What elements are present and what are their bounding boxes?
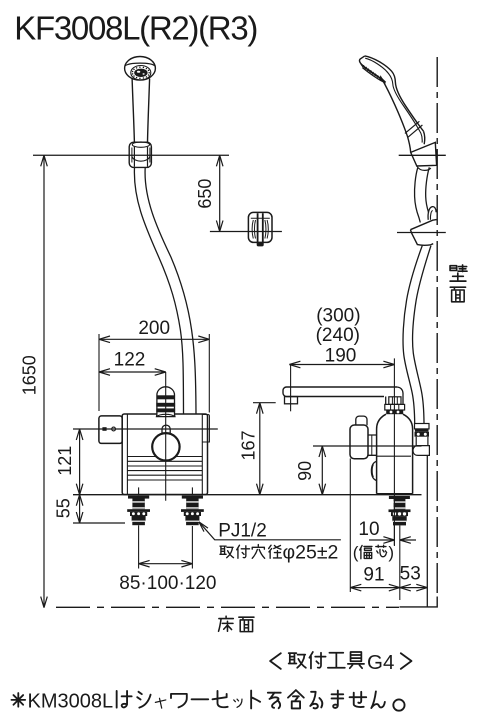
- hook height reference line (left view): [210, 231, 282, 233]
- switch tab (side view body, lower left): [371, 461, 376, 480]
- dimension 10 (offset) ticks and arrows: [393, 526, 395, 547]
- svg-text:650: 650: [195, 179, 215, 209]
- floor reference chain line: [56, 606, 399, 608]
- faucet body (front view): [122, 414, 209, 495]
- svg-text:91: 91: [363, 564, 384, 585]
- dimension 1650 vertical line with arrows: [43, 155, 45, 607]
- hose end fitting + elbow (side view): [415, 424, 430, 429]
- inlet leg right (front view): [182, 496, 203, 499]
- handle front extension line (91): [349, 459, 351, 593]
- svg-text:55: 55: [54, 498, 74, 518]
- svg-text:122: 122: [114, 350, 146, 371]
- dimension 122 line with arrows: [99, 371, 166, 373]
- dimension 90 line with arrows: [321, 446, 323, 495]
- leg nut bottom reference line (55): [73, 522, 125, 524]
- leader line PJ1/2: [199, 522, 341, 540]
- extension lines for 200: [98, 334, 100, 411]
- body inner line (side view): [377, 455, 411, 457]
- inlet leg (side view): [389, 496, 410, 499]
- svg-text:121: 121: [55, 446, 75, 476]
- svg-text:90: 90: [295, 461, 315, 481]
- svg-text:(: (: [353, 543, 359, 562]
- center line through crown and dial: [165, 372, 167, 501]
- check valve cap (left of body): [99, 416, 122, 444]
- svg-text:167: 167: [239, 430, 259, 460]
- body bottom / deck reference line: [73, 494, 422, 496]
- shower head (front view): [125, 57, 156, 81]
- svg-text:(240): (240): [316, 325, 360, 346]
- shower holder bracket (front view): [129, 142, 151, 167]
- dimension 650 vertical line with arrows: [219, 155, 221, 231]
- spout-body joint block: [386, 387, 403, 408]
- shower holder (side view, on wall): [411, 142, 437, 166]
- hose connector crown on body top: [157, 387, 175, 417]
- grip ridge lines on body lower band: [127, 457, 202, 481]
- dimension 167 tick + line: [253, 402, 276, 404]
- dimension 91/53 line with arrows: [350, 587, 427, 589]
- label 壁面 (wall surface) vertical: [450, 265, 467, 281]
- hook height reference line (side view): [397, 232, 446, 234]
- inlet leg left (front view): [128, 496, 149, 499]
- dimension 85-100-120 line with arrows: [139, 563, 193, 565]
- svg-text:85·100·120: 85·100·120: [119, 573, 216, 594]
- body center line (side view): [393, 358, 395, 545]
- svg-text:1650: 1650: [19, 355, 39, 395]
- dimension 200 line with arrows: [99, 338, 209, 340]
- temperature dial (front view): [152, 433, 179, 460]
- shower height reference line (top, left view): [33, 154, 229, 156]
- label 床面 (floor surface): [219, 616, 234, 631]
- shower hose upper (side view): [415, 168, 421, 223]
- svg-text:190: 190: [325, 345, 357, 366]
- leg center extension lines for 85-100-120: [138, 525, 140, 568]
- shower head face hatch strokes: [361, 64, 386, 83]
- svg-text:53: 53: [400, 563, 421, 584]
- svg-text:G4: G4: [367, 651, 394, 674]
- label 取付穴径 φ25±2: [220, 546, 234, 558]
- dimension 121 / 55 vertical line: [79, 429, 81, 523]
- svg-text:(300): (300): [316, 306, 360, 327]
- lower wall hook (side view): [428, 207, 436, 220]
- dimension 190 line with arrows: [289, 364, 394, 366]
- svg-text:200: 200: [138, 318, 170, 339]
- svg-text:KF3008L(R2)(R3): KF3008L(R2)(R3): [14, 10, 257, 47]
- spout arm (side view): [283, 387, 397, 397]
- shower hose lower (side view, S-curve to hose fitting): [403, 246, 422, 425]
- svg-text:φ25±2: φ25±2: [283, 541, 339, 563]
- shower hose (front view, S-curve down to faucet): [134, 168, 183, 415]
- temperature knob (side view): [356, 416, 367, 425]
- wall surface chain line (vertical): [436, 57, 438, 597]
- svg-text:10: 10: [358, 519, 379, 540]
- shower head (side view): [359, 56, 424, 152]
- wall solid line below elbow: [426, 455, 428, 607]
- svg-text:KM3008L: KM3008L: [28, 691, 114, 713]
- inlet center reference line y=429: [73, 428, 218, 430]
- faucet body (side view): [377, 414, 413, 494]
- wall hook (front view, at 650 line): [248, 212, 272, 242]
- svg-text:): ): [388, 543, 394, 562]
- spout union nut stack (side view, white hex nuts): [385, 397, 405, 410]
- svg-text:PJ1/2: PJ1/2: [218, 520, 267, 541]
- extension line at spout nozzle center: [290, 365, 292, 412]
- leg center stubs above flanges: [138, 487, 140, 495]
- note 取付工具 G4: [270, 653, 281, 669]
- dial stem: [162, 425, 170, 436]
- shower height reference line (side view): [399, 154, 446, 156]
- knob center reference line (90 top): [313, 445, 422, 447]
- bottom note ※KM3008Lはシャワーセットを含みません。: [11, 693, 25, 707]
- floor/wall corner solid segment: [400, 597, 438, 607]
- shower handle (front view): [132, 79, 134, 143]
- spout nozzle: [285, 397, 298, 404]
